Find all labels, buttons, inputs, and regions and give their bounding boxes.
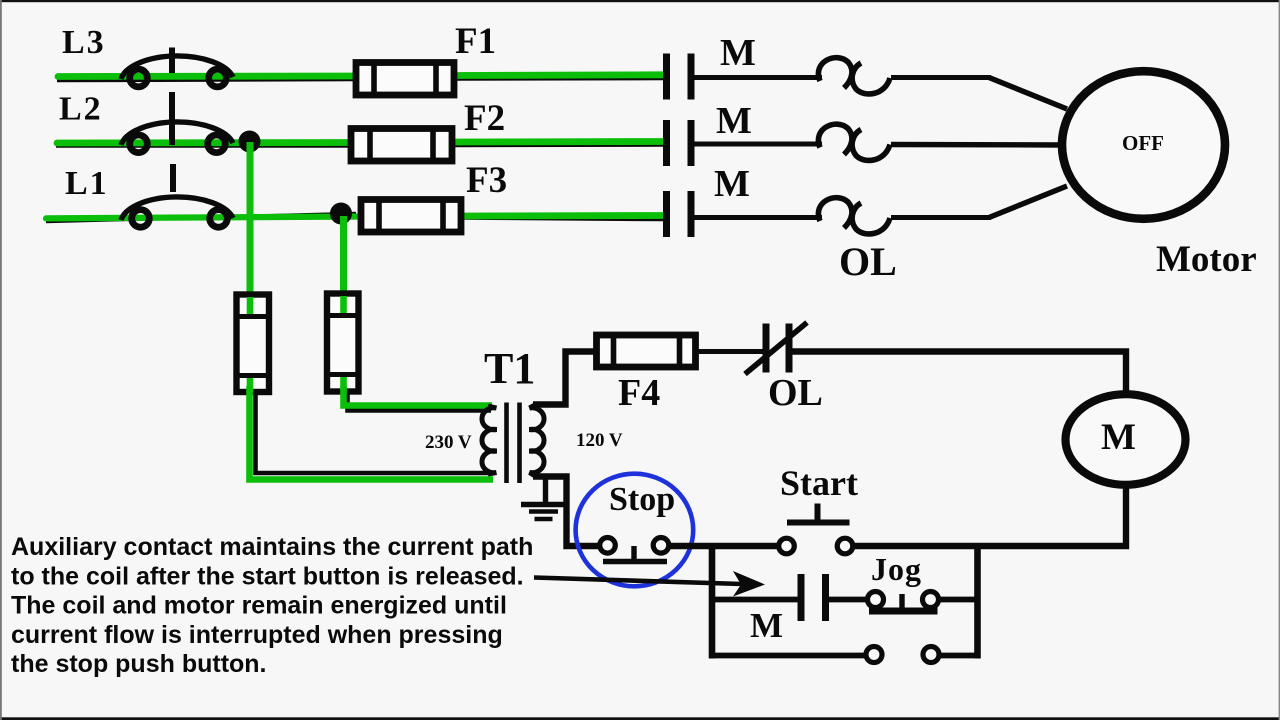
fuse F-right inner caps (327, 313, 359, 318)
transformer T1 core lines (504, 403, 509, 484)
wire start to coil (853, 543, 1130, 549)
contact M row2: left bar (663, 120, 670, 166)
fuse F4 inner caps (611, 335, 617, 367)
svg-text:M: M (720, 32, 756, 74)
svg-text:L1: L1 (65, 165, 109, 202)
jog plunger tick (899, 594, 904, 611)
svg-text:T1: T1 (484, 344, 535, 393)
svg-text:The coil and motor remain ener: The coil and motor remain energized unti… (11, 592, 507, 620)
disconnect switch L1: blade arc (121, 197, 233, 220)
node junction dot L2 tap (239, 131, 261, 153)
stop button plunger tick (631, 546, 636, 561)
wire F4 to OL contact (696, 349, 764, 354)
wire M to OL row3 (695, 215, 823, 220)
wire green inside right fuse caps (340, 296, 347, 313)
wire OL to coil corner (792, 352, 1126, 393)
OL heater row1 (818, 58, 890, 94)
svg-text:OL: OL (768, 372, 823, 414)
svg-text:the stop push button.: the stop push button. (11, 650, 267, 678)
svg-text:F4: F4 (618, 372, 660, 414)
frame top border (0, 0, 1280, 2)
contact M row2: right bar (688, 120, 695, 166)
svg-text:L3: L3 (62, 24, 106, 61)
disconnect switch L2: handle tick (169, 92, 175, 145)
wire OL to motor row2 (891, 142, 1066, 148)
contact M aux: right bar (822, 574, 829, 621)
wire L3 green left segment (58, 73, 356, 80)
OL contact left bar (763, 324, 770, 373)
wire bottom rung right (939, 653, 980, 659)
coil M ellipse (1066, 394, 1186, 485)
OL contact right bar (786, 324, 793, 373)
wire secondary top to F4 (533, 352, 596, 405)
caption text (11, 533, 533, 678)
fuse F3 body (361, 200, 461, 233)
wire OL to bend row3 (891, 215, 991, 220)
disconnect switch L3: left terminal circle (130, 69, 148, 87)
wire green drop from L1 tap (340, 216, 347, 296)
svg-text:230 V: 230 V (425, 432, 472, 453)
svg-text:F2: F2 (464, 98, 505, 139)
jog left terminal (868, 592, 884, 608)
fuse F4 body (597, 335, 696, 367)
transformer T1 secondary winding (530, 405, 545, 477)
jog NC bridge bar (869, 608, 938, 615)
fuse F2 inner caps (367, 129, 373, 162)
wire L1 green right segment (461, 212, 663, 219)
disconnect switch L2: right terminal circle (208, 135, 226, 153)
wire L2 green right segment (452, 138, 663, 145)
transformer T1 primary winding (482, 406, 497, 474)
wire jog to right vertical (939, 597, 981, 603)
disconnect switch L1: right terminal circle (210, 210, 228, 228)
svg-text:120 V: 120 V (576, 430, 623, 451)
wire diagonal to motor row1 (989, 78, 1067, 110)
start button NO bar (787, 520, 850, 526)
OL heater row3 (818, 198, 890, 234)
wire right vertical (974, 543, 981, 659)
OL contact slash (745, 323, 807, 375)
svg-text:OFF: OFF (1122, 131, 1164, 155)
contact M row3: right bar (688, 191, 695, 237)
stop button NC bar (603, 559, 667, 565)
blue highlight circle around Stop (576, 474, 694, 587)
disconnect switch L2: left terminal circle (130, 135, 148, 153)
svg-text:to the coil after the start bu: to the coil after the start button is re… (11, 562, 524, 590)
disconnect switch L3: right terminal circle (209, 69, 227, 87)
svg-text:Jog: Jog (871, 551, 922, 587)
disconnect switch L1: left terminal circle (132, 210, 150, 228)
fuse F-left body (vertical) (237, 295, 270, 393)
OL heater row2 (818, 124, 890, 160)
ground symbol bars (521, 502, 565, 507)
fuse F-left inner caps (237, 314, 270, 319)
svg-text:M: M (750, 606, 783, 645)
wire M aux to Jog (829, 597, 867, 603)
wire L3 green right segment (454, 71, 663, 78)
node junction dot L1 tap (330, 203, 352, 225)
svg-text:OL: OL (839, 239, 897, 284)
contact M row3: left bar (663, 191, 670, 237)
svg-text:L2: L2 (59, 91, 103, 128)
wire coil bottom riser (1123, 488, 1129, 549)
jog right terminal (923, 592, 939, 608)
wire black from left fuse to transformer primary bottom (256, 394, 494, 473)
wire OL to bend row1 (891, 75, 991, 80)
frame right border (1279, 0, 1280, 720)
pointer arrow line (534, 578, 742, 585)
start button left terminal (779, 538, 795, 554)
wire L2 black under-line (56, 144, 351, 148)
svg-text:M: M (714, 163, 750, 205)
svg-text:M: M (1101, 417, 1136, 458)
fuse F-right body (vertical) (327, 294, 359, 392)
fuse F2 body (351, 129, 452, 162)
wire diagonal to motor row3 (989, 186, 1067, 218)
wire green from left fuse to transformer primary bottom (250, 386, 494, 480)
wire M to OL row1 (695, 75, 823, 80)
svg-text:Auxiliary contact maintains th: Auxiliary contact maintains the current … (11, 533, 533, 561)
pointer arrow head (733, 571, 765, 597)
jog lower left terminal (866, 647, 882, 663)
svg-text:Motor: Motor (1156, 239, 1257, 280)
wire M to OL row2 (695, 142, 823, 147)
wire L2 green left segment (57, 139, 351, 146)
disconnect switch L3: blade arc (121, 56, 233, 79)
svg-text:current flow is interrupted wh: current flow is interrupted when pressin… (11, 621, 503, 649)
wire junction drop (709, 543, 716, 659)
disconnect switch L1: handle tick (170, 164, 176, 192)
contact M row1: right bar (688, 54, 695, 100)
wire green drop from L2 tap (247, 142, 254, 297)
motor circle (1062, 71, 1225, 219)
svg-text:F1: F1 (455, 21, 496, 62)
fuse F3 inner caps (376, 200, 382, 233)
fuse F1 inner caps (371, 63, 377, 96)
start button plunger tick (815, 504, 821, 523)
contact M aux: left bar (798, 574, 805, 621)
svg-text:Start: Start (780, 463, 858, 503)
disconnect switch L2: blade arc (121, 122, 233, 145)
wire junction to M aux (709, 597, 798, 603)
disconnect switch L3: handle tick (169, 48, 175, 74)
frame bottom border (0, 717, 1280, 720)
wire green from right fuse to transformer primary top (344, 386, 493, 406)
wire bottom rung left (709, 653, 866, 659)
fuse F1 body (356, 63, 454, 96)
wire L1 black under-line (46, 214, 356, 222)
wire L1 green left segment (46, 217, 361, 219)
start button right terminal (837, 538, 853, 554)
wire L3 black under-line (57, 80, 356, 81)
frame left border (0, 0, 2, 720)
svg-text:Stop: Stop (609, 481, 675, 518)
svg-text:F3: F3 (466, 160, 507, 201)
ground symbol stem (543, 475, 548, 503)
wire green inside left fuse caps (247, 297, 254, 314)
stop button right terminal (653, 538, 669, 554)
contact M row1: left bar (663, 54, 670, 100)
wire secondary bottom elbow (533, 477, 600, 547)
wire stop to start (669, 543, 780, 549)
svg-text:M: M (716, 100, 752, 142)
stop button left terminal (600, 538, 616, 554)
wire black from right fuse to transformer primary top (348, 394, 492, 411)
jog lower right terminal (923, 647, 939, 663)
